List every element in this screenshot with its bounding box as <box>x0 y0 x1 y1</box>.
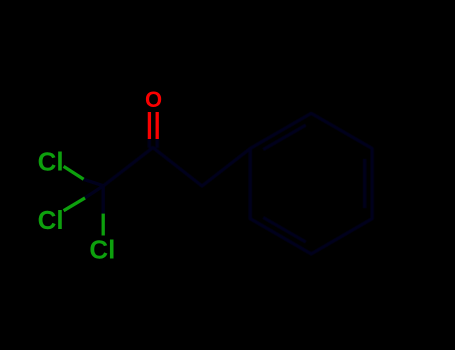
svg-text:Cl: Cl <box>89 234 115 264</box>
wire: bond C1-Cl3, navy half <box>102 186 105 214</box>
wire: bond C1-Cl1, navy half <box>84 179 104 186</box>
wire: bond C1-Cl1, green half <box>64 166 84 179</box>
wire: bond C1-Cl2, green half <box>64 198 85 211</box>
wire: aromatic inner line top-left <box>263 125 306 150</box>
svg-text:Cl: Cl <box>38 147 64 177</box>
svg-text:Cl: Cl <box>38 205 64 235</box>
svg-text:O: O <box>145 87 162 112</box>
node benzene ring outline <box>250 113 372 254</box>
wire: C2=O double bond, navy lower halves <box>148 139 151 148</box>
wire: aromatic inner line right <box>363 159 366 208</box>
wire: bond C1-Cl3, green half <box>102 214 105 236</box>
wire: skeleton bonds C1-C2, C2-C3, C3-ring (dark navy carbon bonds) <box>103 148 250 186</box>
wire: aromatic inner line bottom-left <box>263 218 306 243</box>
wire: C2=O double bond, red upper halves <box>148 112 151 139</box>
wire: bond C1-Cl2, navy half <box>85 186 103 198</box>
